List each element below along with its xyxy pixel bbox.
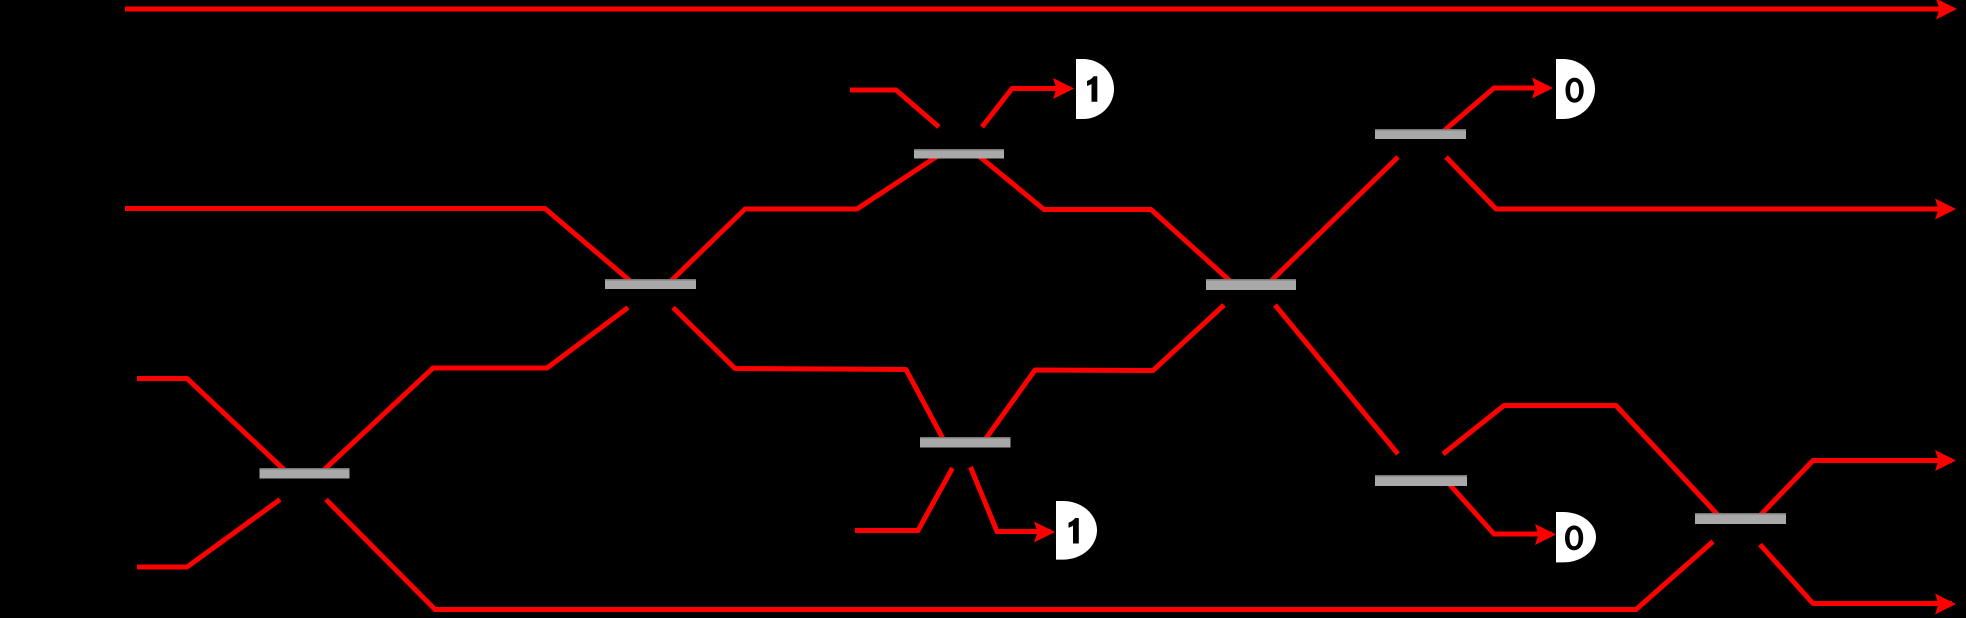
beam splitter BS4	[920, 437, 1011, 448]
wire BS6 transmitted output mode-2 right rail	[1446, 157, 1952, 209]
beam splitter BS6	[1375, 129, 1466, 139]
wire BS1 lower output bottom rail to BS8	[326, 500, 1713, 610]
detector D4 body	[1556, 512, 1596, 562]
wire BS8 upper output rail	[1759, 461, 1952, 517]
beam splitter BS5	[1206, 279, 1296, 290]
wire BS1 upper output to BS2	[323, 308, 629, 472]
wire BS5 lower output to BS7	[1275, 305, 1398, 454]
wire BS7 lower output to detector D4	[1448, 483, 1552, 534]
arrowhead into detector D3	[1034, 522, 1055, 543]
arrowhead mode-4 output	[1935, 594, 1956, 615]
beam splitter BS1	[260, 468, 350, 479]
beam splitter BS2	[605, 279, 696, 289]
beam splitter BS3	[914, 149, 1004, 159]
wire BS3 reflected output to detector D1	[982, 89, 1070, 128]
wire ancilla stub into BS3	[850, 90, 939, 127]
arrowhead mode-3 output	[1935, 450, 1956, 471]
beam splitter BS8	[1695, 513, 1786, 524]
arrowhead into detector D2	[1532, 78, 1553, 99]
wire upper-left stub into BS1	[137, 379, 286, 472]
wire BS2 upper output to BS3	[670, 156, 938, 283]
wire mode-1 top rail	[125, 7, 1952, 12]
wire mode-2 input rail to BS2	[125, 209, 632, 283]
detector D1 body	[1076, 59, 1114, 119]
wire BS4 lower output to detector D3	[971, 467, 1052, 532]
detector D3 body	[1056, 501, 1097, 560]
arrowhead mode-2 output	[1935, 199, 1956, 220]
detector D2 label 0	[1566, 78, 1584, 103]
wire BS3 transmitted output to BS5	[979, 156, 1233, 283]
detector D1 label 1	[1087, 76, 1097, 102]
detector D3 label 1	[1069, 518, 1079, 544]
wire BS7 upper output to BS8	[1443, 406, 1720, 517]
detector D4 label 0	[1565, 526, 1583, 551]
wire BS2 lower output to BS4	[673, 308, 945, 442]
wire BS8 lower output rail	[1760, 545, 1952, 604]
arrowhead into detector D4	[1535, 524, 1556, 545]
wire BS5 upper output to BS6	[1270, 157, 1398, 282]
wire lower-left stub into BS1	[137, 500, 280, 568]
detector D2 body	[1556, 59, 1595, 119]
arrowhead mode-1 output	[1936, 0, 1957, 20]
beam splitter BS7	[1375, 475, 1467, 486]
arrowhead into detector D1	[1053, 78, 1074, 99]
wire BS4 upper output to BS5	[985, 305, 1225, 441]
wire ancilla stub into BS4	[855, 468, 953, 531]
wire BS6 reflected output to detector D2	[1443, 88, 1550, 133]
